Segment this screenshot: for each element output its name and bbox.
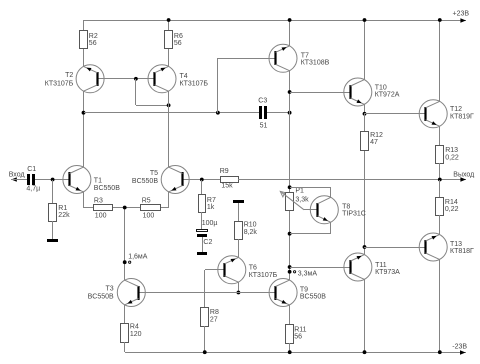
svg-text:BC550B: BC550B [94, 185, 120, 192]
svg-text:T12: T12 [450, 106, 462, 113]
svg-text:R14: R14 [445, 199, 458, 206]
svg-text:R5: R5 [142, 198, 151, 205]
svg-text:T10: T10 [375, 84, 387, 91]
svg-text:T11: T11 [375, 262, 387, 269]
svg-text:Вход: Вход [9, 171, 25, 178]
svg-text:56: 56 [89, 40, 97, 47]
svg-text:R8: R8 [210, 309, 219, 316]
svg-text:R3: R3 [94, 198, 103, 205]
svg-text:1k: 1k [207, 204, 215, 211]
svg-text:Выход: Выход [453, 172, 474, 179]
svg-text:R12: R12 [370, 132, 383, 139]
svg-text:3,3k: 3,3k [295, 196, 309, 203]
svg-text:R6: R6 [174, 33, 183, 40]
svg-text:120: 120 [130, 331, 142, 338]
svg-text:T4: T4 [180, 73, 188, 80]
svg-text:BC550B: BC550B [300, 294, 326, 301]
svg-text:TIP31C: TIP31C [342, 211, 366, 218]
svg-text:100: 100 [143, 213, 155, 220]
svg-text:T2: T2 [65, 72, 73, 79]
svg-text:15k: 15k [221, 183, 233, 190]
svg-text:КТ973А: КТ973А [375, 269, 400, 276]
svg-text:47: 47 [370, 139, 378, 146]
svg-text:T6: T6 [249, 265, 257, 272]
svg-text:R10: R10 [244, 222, 257, 229]
svg-text:0,22: 0,22 [445, 154, 459, 161]
svg-text:T9: T9 [300, 287, 308, 294]
svg-text:R4: R4 [130, 324, 139, 331]
svg-text:КТ3107Б: КТ3107Б [180, 81, 209, 88]
svg-text:3,3мА: 3,3мА [298, 271, 318, 278]
svg-text:R13: R13 [445, 147, 458, 154]
svg-text:56: 56 [174, 40, 182, 47]
svg-text:56: 56 [294, 334, 302, 341]
svg-text:0,22: 0,22 [445, 206, 459, 213]
svg-text:T7: T7 [301, 52, 309, 59]
svg-text:T3: T3 [106, 285, 114, 292]
svg-text:27: 27 [210, 316, 218, 323]
svg-text:T5: T5 [150, 170, 158, 177]
svg-text:P1: P1 [295, 187, 304, 194]
svg-text:-23В: -23В [452, 344, 467, 351]
svg-text:R2: R2 [89, 33, 98, 40]
svg-text:R9: R9 [220, 168, 229, 175]
svg-text:R11: R11 [294, 327, 306, 334]
svg-text:T1: T1 [94, 178, 102, 185]
svg-text:BC550B: BC550B [132, 178, 158, 185]
svg-text:КТ3108В: КТ3108В [301, 60, 330, 67]
svg-text:T13: T13 [450, 241, 462, 248]
svg-text:R7: R7 [207, 197, 216, 204]
svg-text:КТ3107Б: КТ3107Б [45, 81, 74, 88]
svg-text:BC550B: BC550B [88, 294, 114, 301]
svg-text:C3: C3 [258, 98, 267, 105]
svg-text:C1: C1 [27, 166, 36, 173]
svg-text:C2: C2 [203, 239, 212, 246]
svg-text:+23В: +23В [453, 11, 470, 18]
svg-text:100: 100 [95, 213, 107, 220]
svg-text:КТ818Г: КТ818Г [450, 248, 474, 255]
svg-text:22k: 22k [58, 212, 70, 219]
svg-text:КТ819Г: КТ819Г [450, 113, 474, 120]
svg-text:8,2k: 8,2k [244, 229, 258, 236]
svg-text:R1: R1 [58, 205, 67, 212]
svg-text:КТ972А: КТ972А [375, 92, 400, 99]
svg-text:100µ: 100µ [202, 220, 218, 227]
svg-text:1,6мА: 1,6мА [128, 253, 148, 260]
svg-text:4,7µ: 4,7µ [26, 186, 40, 193]
svg-text:КТ3107Б: КТ3107Б [249, 272, 278, 279]
svg-text:51: 51 [260, 123, 268, 130]
